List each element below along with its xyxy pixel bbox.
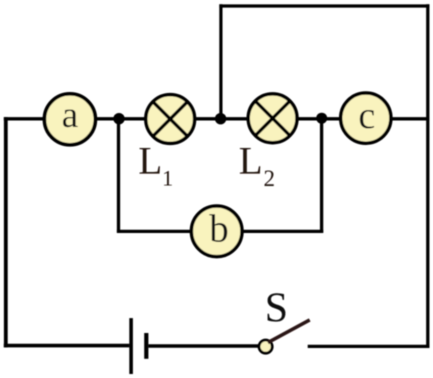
svg-text:c: c	[358, 95, 375, 137]
svg-text:b: b	[209, 208, 229, 251]
svg-text:L: L	[138, 139, 162, 182]
svg-text:S: S	[265, 286, 288, 332]
svg-text:a: a	[62, 95, 79, 136]
svg-text:2: 2	[263, 166, 275, 191]
svg-text:1: 1	[162, 165, 173, 190]
svg-text:L: L	[239, 139, 263, 182]
